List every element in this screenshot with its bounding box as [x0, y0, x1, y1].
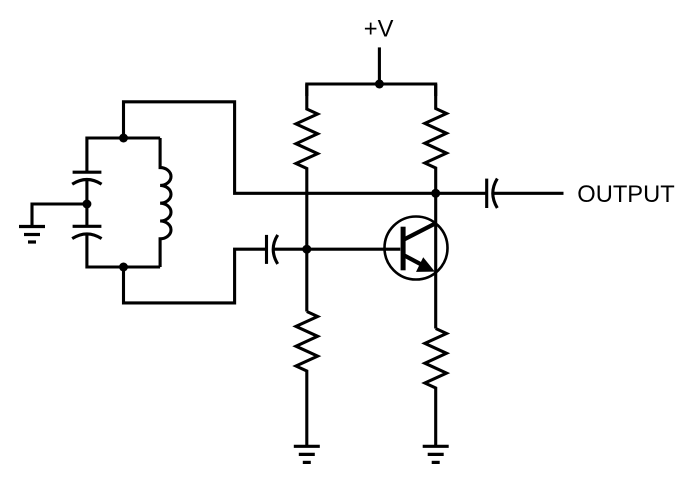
capacitor C4 output coupling: straight plate — [485, 179, 488, 208]
node tank top junction — [119, 134, 128, 143]
wire C3 to base — [272, 248, 400, 251]
inductor L1 — [160, 138, 171, 267]
wire base node down — [305, 249, 308, 311]
transistor Q1 base bar — [401, 227, 406, 271]
node tank centre tap — [82, 200, 91, 209]
svg-text:+V: +V — [364, 17, 394, 43]
node base junction — [302, 245, 311, 254]
wire feedback path tank bottom to C3 — [124, 249, 267, 303]
svg-text:OUTPUT: OUTPUT — [577, 182, 674, 208]
ground (bottom right) — [423, 446, 449, 462]
ground (tank centre tap) — [19, 227, 45, 243]
capacitor C2: straight plate — [73, 225, 102, 228]
capacitor C2: curved plate — [72, 234, 101, 239]
node tank bottom junction — [119, 263, 128, 272]
wire +V stub — [378, 47, 381, 84]
resistor R3 — [296, 312, 318, 447]
resistor R1 — [296, 84, 318, 249]
wire centre tap to ground — [32, 204, 87, 227]
transistor Q1 circle — [385, 217, 448, 280]
ground (bottom left) — [294, 446, 320, 462]
transistor Q1 collector lead — [404, 223, 436, 239]
wire tank top to collector line — [124, 102, 487, 194]
node collector/output junction — [431, 189, 440, 198]
capacitor C3 base coupling: straight plate — [265, 235, 268, 264]
wire output lead — [493, 192, 564, 195]
capacitor C3 base coupling: curved plate — [273, 235, 278, 264]
wire between C1 and C2 — [85, 180, 88, 227]
resistor R4 — [425, 329, 447, 447]
capacitor C4 output coupling: curved plate — [493, 179, 498, 208]
capacitor C1: straight plate — [73, 171, 102, 174]
capacitor C1: curved plate — [72, 180, 101, 185]
node supply junction — [375, 80, 384, 89]
wire top supply rail — [307, 84, 436, 96]
tank outline: top rail, left stub, inductor branch, bottom rail — [87, 138, 160, 267]
transistor Q1 emitter lead with arrow — [404, 255, 426, 267]
resistor R2 — [425, 84, 447, 329]
